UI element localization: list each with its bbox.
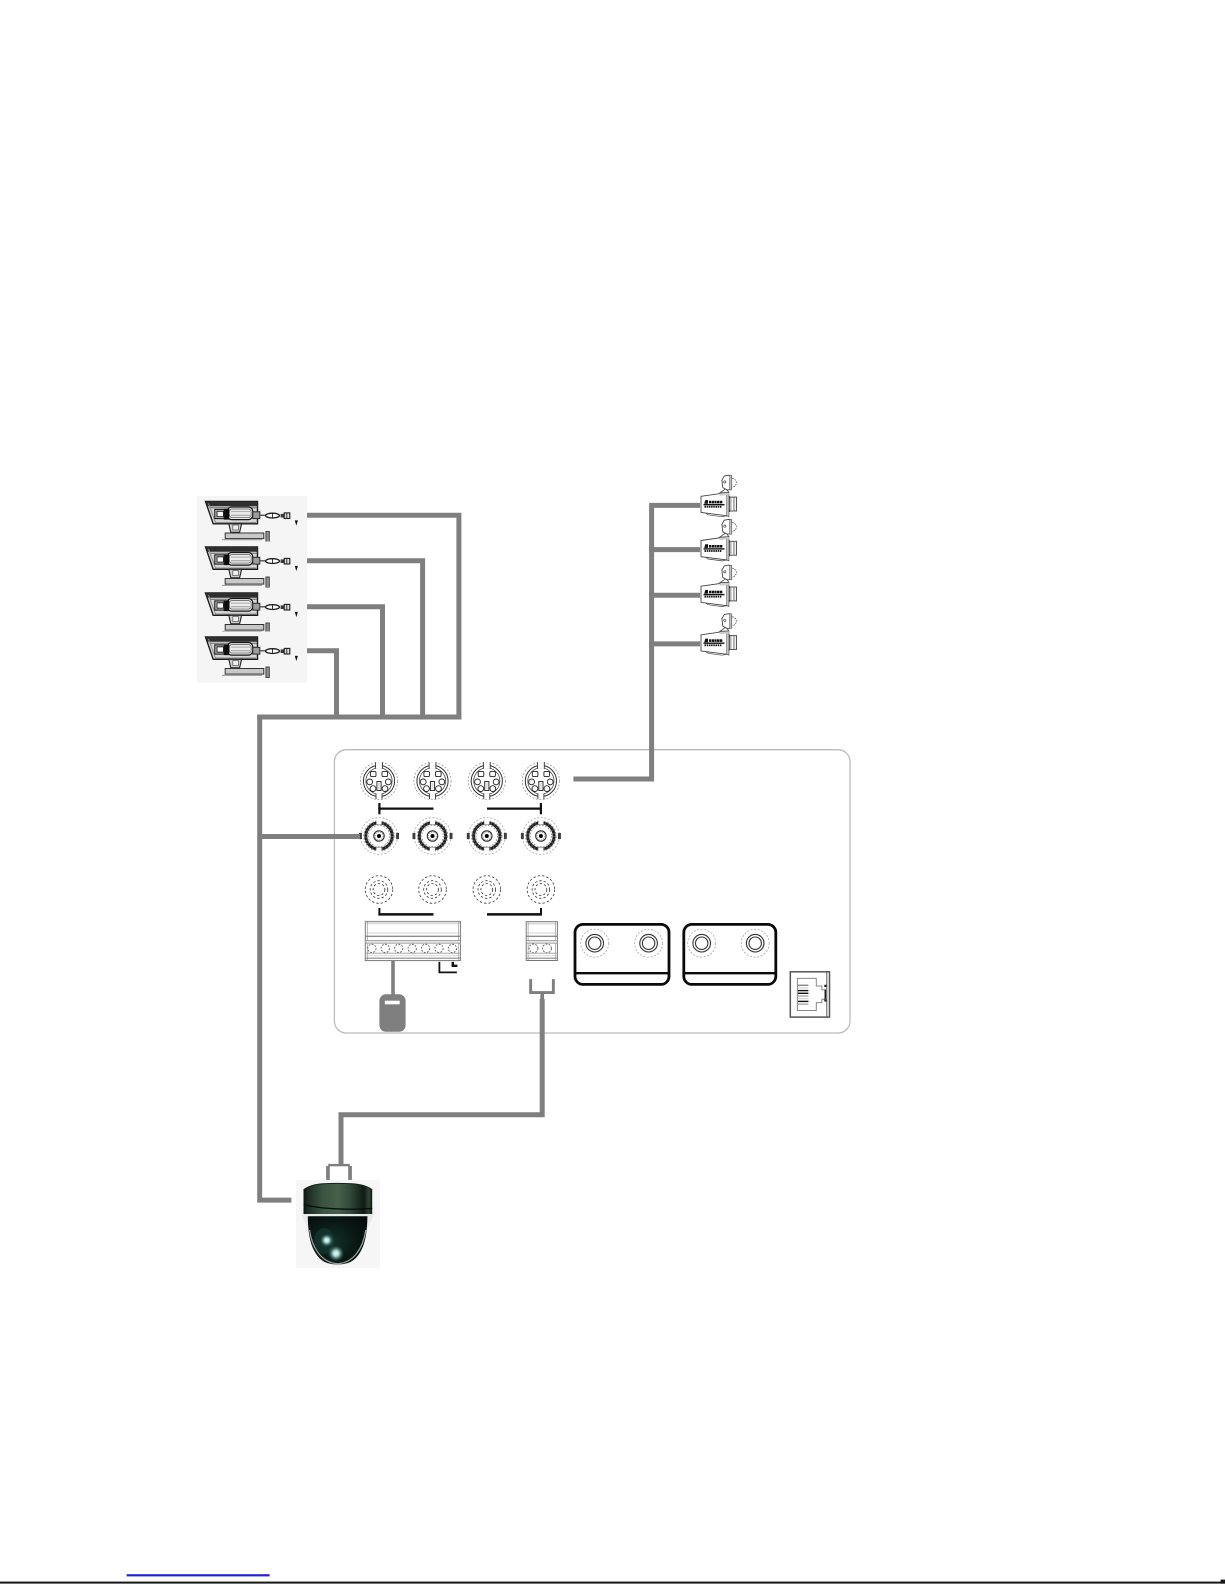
mini-DIN connector DIN1 (CH1 S-video in) <box>360 762 397 799</box>
loop-through box A <box>575 924 669 984</box>
RS-485 wire from fork to dome connector <box>341 999 542 1166</box>
bracket under RCA3-RCA4 <box>487 908 542 916</box>
BNC jack BNC3 (CH3 video in) <box>467 818 507 855</box>
wire from camera CAM2 <box>285 561 423 720</box>
L-mark large below TB1 <box>439 962 457 973</box>
speaker branch wire 2 <box>649 547 700 552</box>
dome camera cylinder top edge <box>304 1183 373 1190</box>
dome camera glass dome <box>308 1216 368 1264</box>
RCA jack RCA1 (CH1 audio in) <box>365 876 393 904</box>
bracket under DIN3-DIN4 <box>487 803 542 814</box>
blue underline (footer link) <box>127 1574 270 1576</box>
BNC jack BNC2 (CH2 video in) <box>413 818 453 855</box>
BNC jack BNC4 (CH4 video in) <box>521 818 561 855</box>
RCA jack RCA4 (CH4 audio in) <box>527 876 555 904</box>
speaker branch wire 4 <box>649 641 700 646</box>
camera bus horizontal wire <box>257 715 461 720</box>
L-mark small below TB1 <box>453 962 458 966</box>
camera CAM4 <box>197 632 307 683</box>
mini-DIN connector DIN3 (CH3 S-video in) <box>468 762 505 799</box>
DVR rear panel <box>334 750 850 1033</box>
loop-through box B <box>684 924 776 984</box>
gray cable from TB1 <box>391 961 395 996</box>
plug white slot <box>385 1001 400 1005</box>
dome camera ring left flare <box>302 1214 311 1230</box>
dome highlight 1 <box>320 1233 334 1247</box>
dome highlight 2 <box>328 1245 345 1262</box>
staple connector on dome top <box>326 1164 352 1182</box>
wire from camera CAM4 <box>288 651 337 720</box>
mini-DIN connector DIN4 (CH4 S-video in) <box>522 762 559 799</box>
camera bus left drop wire to dome <box>260 715 292 1201</box>
IR sensor S3 <box>701 565 737 607</box>
speaker branch wire 3 <box>649 593 700 598</box>
BNC jack BNC1 (CH1 video in) <box>359 818 399 855</box>
gray fork connector under TB2 <box>529 979 555 1002</box>
terminal block TB2 (RS-485) <box>526 922 557 961</box>
gray power plug <box>379 994 405 1032</box>
dome camera housing seam <box>304 1205 373 1210</box>
camera CAM2 <box>197 542 307 593</box>
dome camera housing cylinder <box>304 1183 373 1215</box>
IR sensor S1 <box>701 475 737 517</box>
camera CAM1 <box>197 496 307 547</box>
RCA jack RCA3 (CH3 audio in) <box>473 876 501 904</box>
dome camera photo background <box>296 1180 380 1268</box>
dome camera white mounting ring sliver <box>302 1214 374 1217</box>
footer rule end blob <box>1221 1580 1225 1584</box>
bracket under RCA1-RCA2 <box>378 908 433 916</box>
mini-DIN connector DIN2 (CH2 S-video in) <box>414 762 451 799</box>
wire branch into BNC1 <box>260 834 360 839</box>
RCA jack RCA2 (CH2 audio in) <box>419 876 447 904</box>
speaker bus wire down to DIN4 <box>573 505 700 779</box>
dome bottom rim <box>310 1230 366 1264</box>
dome sheen <box>314 1228 334 1254</box>
IR sensor S2 <box>701 519 737 561</box>
terminal block TB1 (alarm I/O) <box>365 921 460 960</box>
camera CAM3 <box>197 588 307 639</box>
wire from camera CAM3 <box>282 607 383 720</box>
dome camera ring right flare <box>364 1214 373 1230</box>
RJ45 LAN socket <box>790 972 829 1017</box>
IR sensor S4 <box>701 614 737 656</box>
wire from camera CAM1 to corner bus <box>290 515 459 719</box>
footer rule <box>0 1582 1225 1584</box>
bracket under DIN1-DIN2 <box>378 803 433 814</box>
